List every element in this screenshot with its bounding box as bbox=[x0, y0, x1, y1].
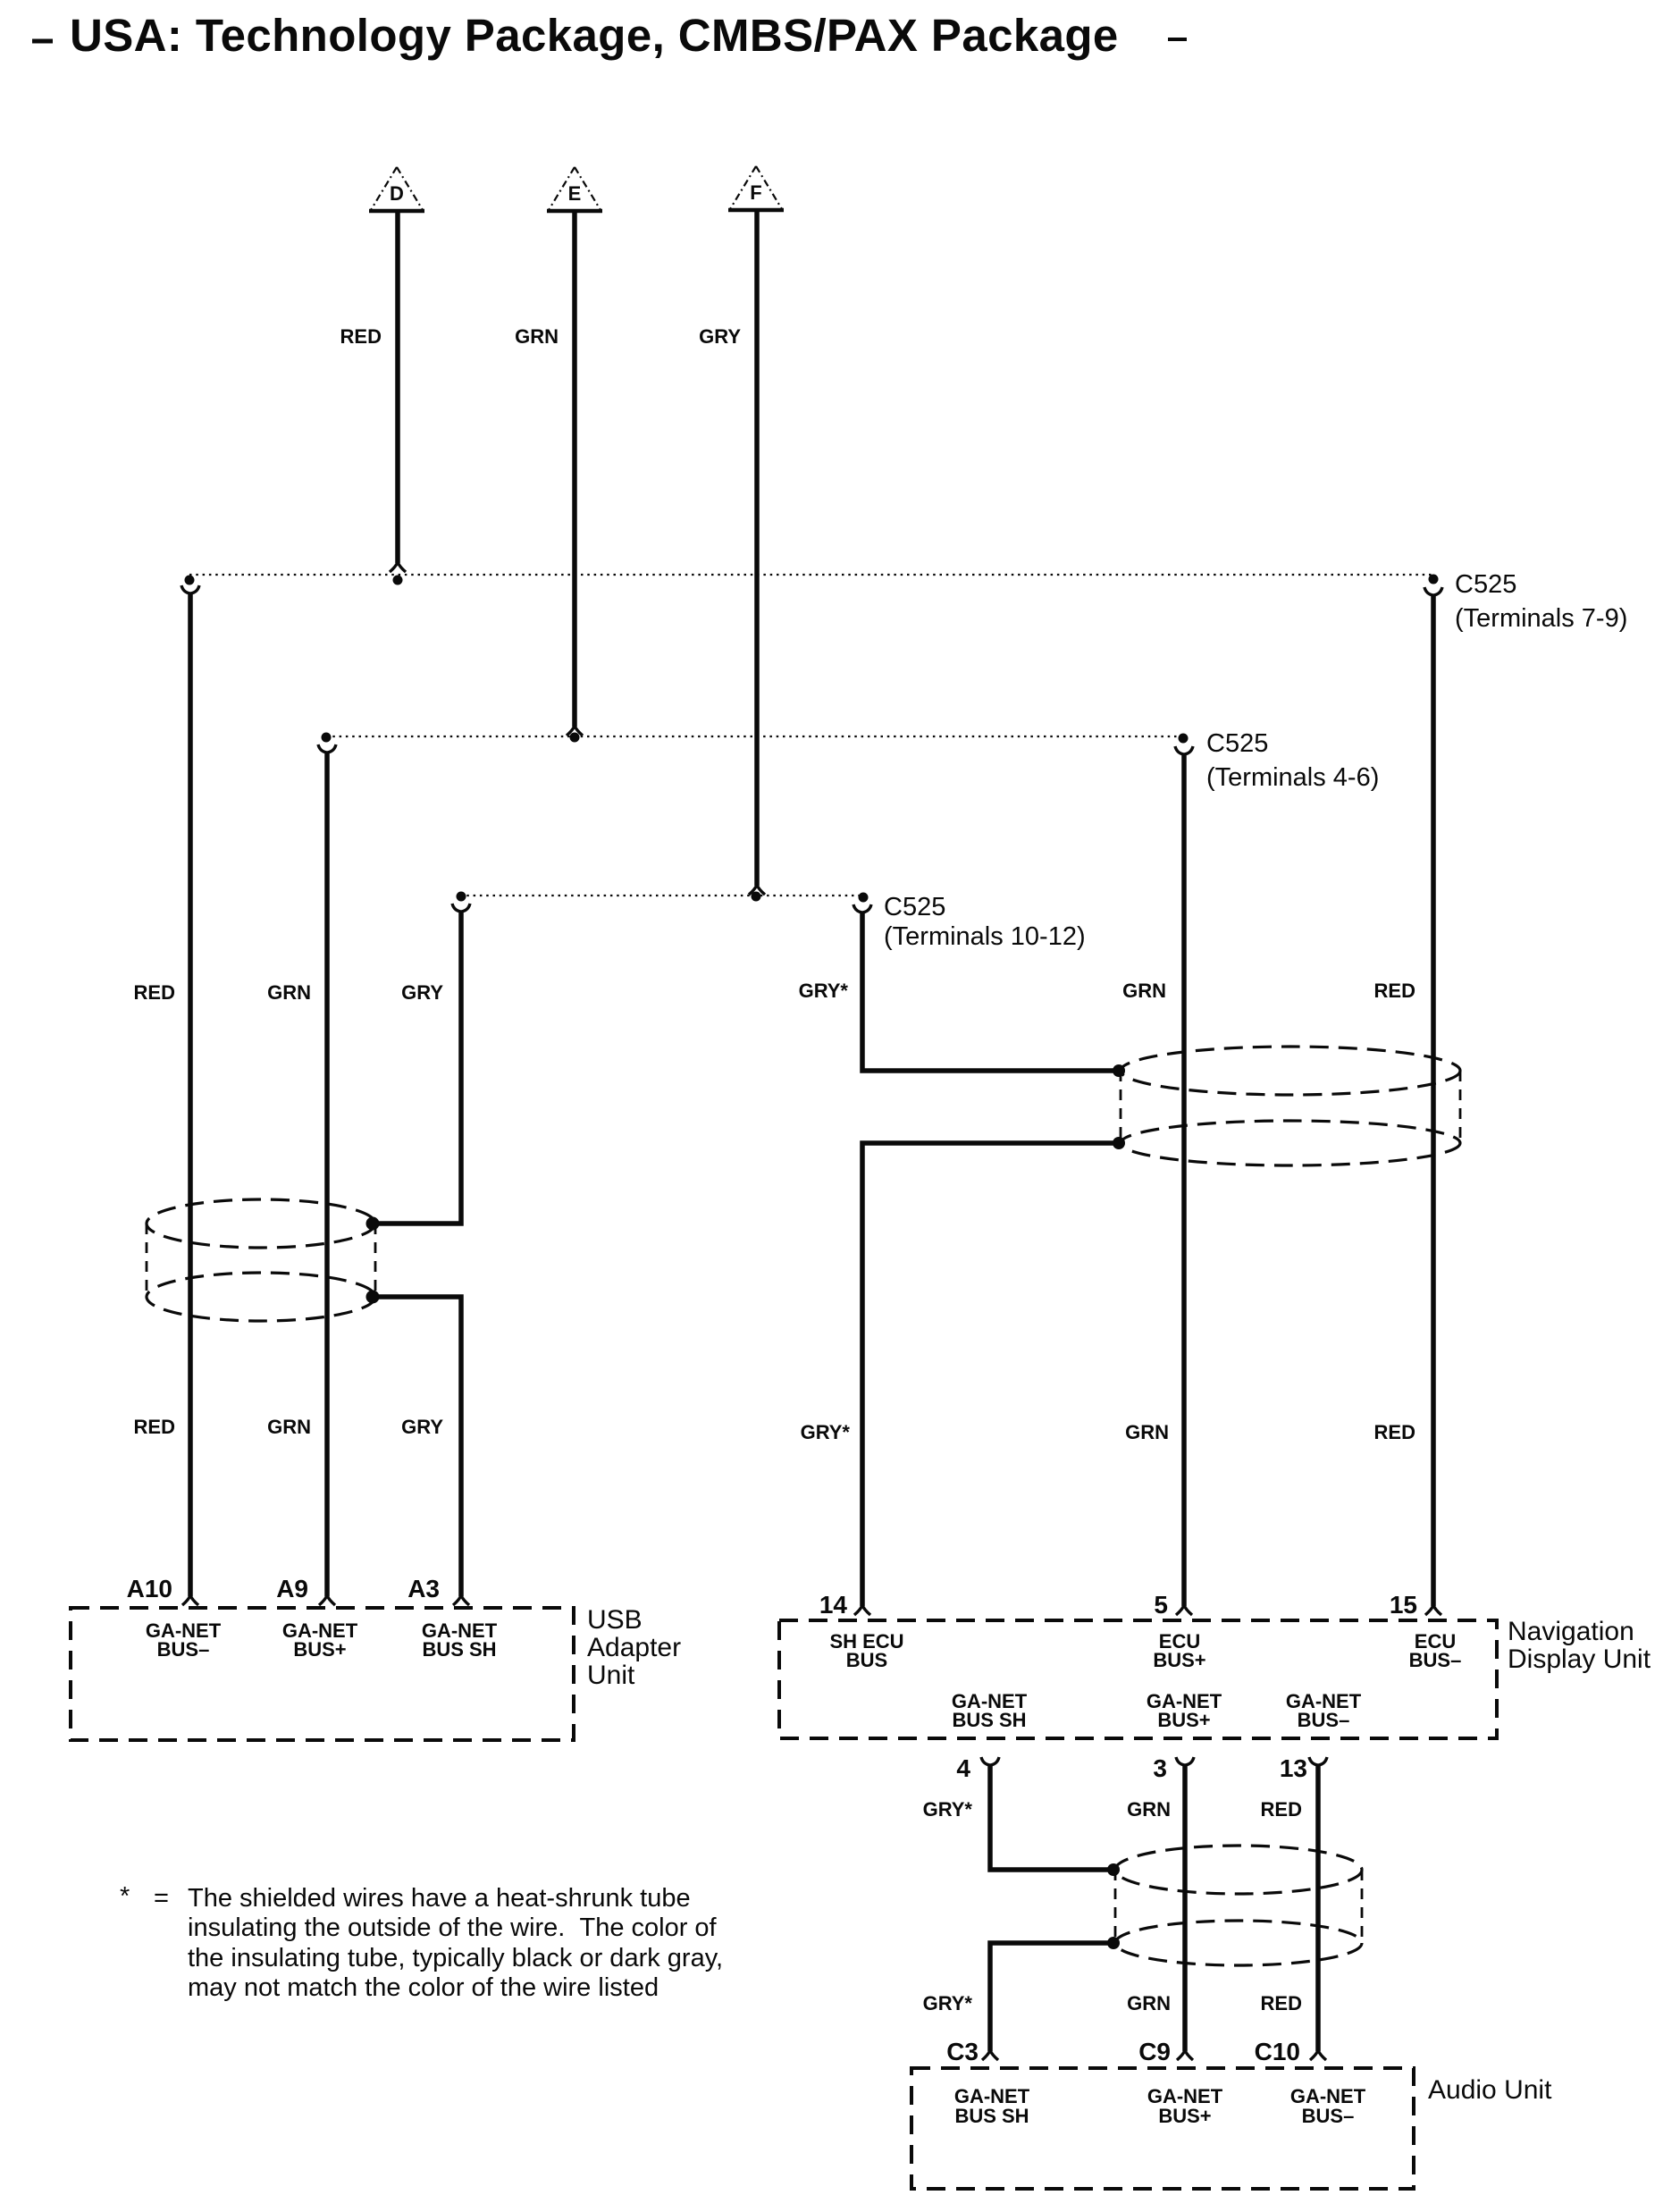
svg-text:BUS–: BUS– bbox=[1409, 1649, 1462, 1671]
svg-text:BUS+: BUS+ bbox=[1158, 2105, 1211, 2127]
svg-text:GRN: GRN bbox=[267, 981, 311, 1004]
svg-text:GRY: GRY bbox=[699, 325, 741, 348]
svg-text:RED: RED bbox=[134, 981, 175, 1004]
shield bottom cylinder bbox=[1107, 1846, 1362, 1965]
shield left bottom junction dot bbox=[366, 1291, 380, 1304]
svg-text:Unit: Unit bbox=[587, 1661, 635, 1690]
svg-text:14: 14 bbox=[819, 1591, 848, 1619]
shield left cylinder bbox=[147, 1199, 380, 1321]
svg-text:(Terminals 4-6): (Terminals 4-6) bbox=[1206, 763, 1379, 792]
svg-text:GRY: GRY bbox=[401, 1416, 443, 1438]
footnote bbox=[120, 1882, 723, 2002]
shield right top junction dot bbox=[1113, 1064, 1125, 1077]
svg-text:C525: C525 bbox=[1206, 729, 1268, 758]
junction dot right row1 bbox=[1429, 575, 1439, 585]
shield bottom bottom junction dot bbox=[1107, 1937, 1120, 1949]
svg-text:Display Unit: Display Unit bbox=[1508, 1644, 1651, 1674]
svg-text:Adapter: Adapter bbox=[587, 1633, 681, 1662]
svg-text:Audio Unit: Audio Unit bbox=[1428, 2075, 1552, 2105]
svg-text:insulating the outside of the: insulating the outside of the wire. The … bbox=[188, 1913, 718, 1942]
svg-text:GRN: GRN bbox=[267, 1416, 311, 1438]
svg-text:USB: USB bbox=[587, 1605, 643, 1635]
svg-text:A3: A3 bbox=[407, 1575, 440, 1602]
svg-text:GRY*: GRY* bbox=[801, 1421, 851, 1443]
wire F GRY bbox=[699, 211, 765, 895]
svg-text:5: 5 bbox=[1154, 1591, 1168, 1619]
navigation display unit box bbox=[779, 1591, 1651, 1738]
svg-text:15: 15 bbox=[1390, 1591, 1417, 1619]
svg-text:C525: C525 bbox=[884, 893, 945, 921]
svg-text:RED: RED bbox=[1261, 1992, 1302, 2014]
title bbox=[32, 10, 1187, 61]
wire RED right column to pin 15 bbox=[1374, 587, 1442, 1615]
shield right cylinder bbox=[1113, 1047, 1460, 1165]
svg-text:E: E bbox=[568, 182, 582, 205]
wire GRN right column to pin 5 bbox=[1122, 746, 1193, 1615]
svg-text:C525: C525 bbox=[1455, 570, 1516, 599]
wire RED pin 13 to C10 bbox=[1255, 1754, 1327, 2065]
svg-text:A10: A10 bbox=[127, 1575, 172, 1602]
svg-text:GRY*: GRY* bbox=[923, 1992, 973, 2014]
wire GRY* pin 4 to C3 bbox=[923, 1754, 1112, 2065]
wire GRY left column to A3 bbox=[376, 904, 470, 1605]
connector C525 terminals 10-12 dotted line bbox=[457, 892, 1086, 952]
svg-text:BUS SH: BUS SH bbox=[422, 1638, 496, 1661]
svg-text:BUS SH: BUS SH bbox=[952, 1709, 1026, 1731]
svg-text:RED: RED bbox=[1261, 1798, 1302, 1821]
svg-text:RED: RED bbox=[1374, 980, 1415, 1002]
svg-text:GRY*: GRY* bbox=[799, 980, 849, 1002]
svg-text:BUS+: BUS+ bbox=[1153, 1649, 1205, 1671]
svg-text:The shielded wires have a heat: The shielded wires have a heat-shrunk tu… bbox=[188, 1884, 691, 1913]
svg-text:C10: C10 bbox=[1255, 2038, 1300, 2065]
junction dot left row3 bbox=[457, 892, 466, 902]
svg-text:BUS+: BUS+ bbox=[1157, 1709, 1210, 1731]
svg-text:C3: C3 bbox=[946, 2038, 979, 2065]
svg-text:GRN: GRN bbox=[1127, 1798, 1171, 1821]
svg-text:Navigation: Navigation bbox=[1508, 1617, 1634, 1646]
svg-text:=: = bbox=[154, 1884, 169, 1913]
connector C525 terminals 7-9 dotted line bbox=[185, 570, 1628, 633]
svg-text:(Terminals 7-9): (Terminals 7-9) bbox=[1455, 604, 1627, 633]
svg-text:USA: Technology Package, CMBS/: USA: Technology Package, CMBS/PAX Packag… bbox=[70, 10, 1119, 61]
svg-text:RED: RED bbox=[134, 1416, 175, 1438]
junction dot left row1 bbox=[185, 576, 195, 585]
wire RED left column to A10 bbox=[134, 585, 199, 1605]
svg-text:BUS+: BUS+ bbox=[293, 1638, 346, 1661]
svg-text:GRN: GRN bbox=[1122, 980, 1166, 1002]
svg-text:*: * bbox=[120, 1882, 130, 1911]
connector D bbox=[369, 167, 424, 211]
svg-text:BUS: BUS bbox=[846, 1649, 887, 1671]
svg-text:D: D bbox=[390, 182, 404, 205]
connector F bbox=[728, 166, 784, 210]
junction dot E row2 bbox=[570, 733, 580, 743]
wire GRN left column to A9 bbox=[267, 744, 336, 1605]
svg-text:13: 13 bbox=[1280, 1754, 1307, 1782]
connector C525 terminals 4-6 dotted line bbox=[322, 729, 1380, 792]
USB adapter unit box bbox=[71, 1575, 681, 1740]
audio unit box bbox=[911, 2068, 1552, 2189]
connector E bbox=[547, 167, 602, 211]
wire E GRN bbox=[515, 211, 583, 736]
svg-text:RED: RED bbox=[340, 325, 382, 348]
junction dot right row3 bbox=[859, 893, 869, 903]
svg-text:BUS SH: BUS SH bbox=[954, 2105, 1029, 2127]
svg-text:(Terminals 10-12): (Terminals 10-12) bbox=[884, 922, 1086, 951]
svg-text:C9: C9 bbox=[1138, 2038, 1171, 2065]
svg-text:4: 4 bbox=[956, 1754, 970, 1782]
svg-text:BUS–: BUS– bbox=[157, 1638, 210, 1661]
junction dot D row1 bbox=[393, 576, 403, 585]
svg-text:GRN: GRN bbox=[1127, 1992, 1171, 2014]
svg-text:GRY: GRY bbox=[401, 981, 443, 1004]
junction dot right row2 bbox=[1179, 734, 1189, 744]
junction dot left row2 bbox=[322, 733, 332, 743]
shield left top junction dot bbox=[366, 1217, 380, 1231]
svg-text:BUS–: BUS– bbox=[1298, 1709, 1350, 1731]
svg-text:F: F bbox=[750, 181, 761, 204]
shield bottom top junction dot bbox=[1107, 1863, 1120, 1876]
svg-text:GRN: GRN bbox=[1125, 1421, 1169, 1443]
svg-text:the insulating tube, typically: the insulating tube, typically black or … bbox=[188, 1944, 723, 1972]
svg-text:GRN: GRN bbox=[515, 325, 559, 348]
svg-text:GRY*: GRY* bbox=[923, 1798, 973, 1821]
svg-text:3: 3 bbox=[1153, 1754, 1167, 1782]
wire GRN pin 3 to C9 bbox=[1127, 1754, 1194, 2065]
svg-text:BUS–: BUS– bbox=[1302, 2105, 1355, 2127]
wire GRY* right column to pin 14 bbox=[799, 904, 1117, 1615]
svg-text:may not match the color of the: may not match the color of the wire list… bbox=[188, 1973, 659, 2002]
svg-text:A9: A9 bbox=[276, 1575, 308, 1602]
shield right bottom junction dot bbox=[1113, 1137, 1125, 1149]
svg-text:RED: RED bbox=[1374, 1421, 1415, 1443]
junction dot F row3 bbox=[752, 892, 761, 902]
wire D RED bbox=[340, 211, 406, 572]
